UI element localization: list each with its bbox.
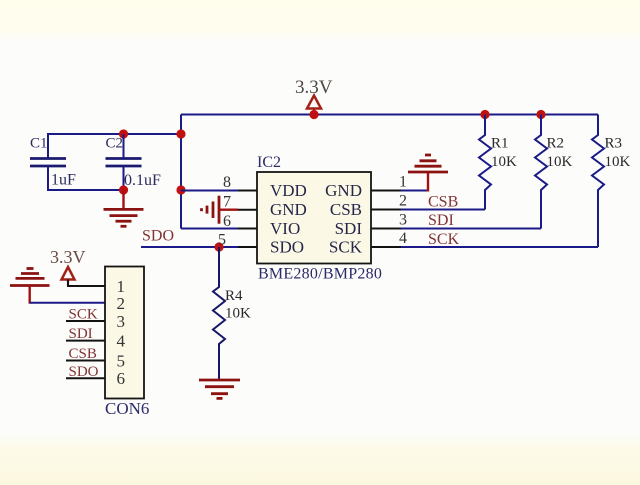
svg-text:SDI: SDI [428, 212, 454, 229]
node vertical/captop junction [176, 129, 185, 138]
ground at CON6 [10, 269, 50, 286]
ground below C2 [104, 209, 144, 226]
resistor R1 [479, 115, 517, 210]
wire CON6 pin4 SDI [66, 340, 105, 342]
wire CON6 pin3 SCK [66, 320, 105, 322]
ground at pin1 [408, 155, 448, 172]
svg-text:7: 7 [223, 194, 231, 211]
wire pin1 ground stem [427, 172, 429, 192]
svg-text:SDI: SDI [335, 219, 363, 238]
svg-text:10K: 10K [547, 154, 573, 170]
ground at pin7 (rotated) [202, 196, 239, 224]
wire C1 bottom lead [48, 166, 124, 190]
svg-text:SDI: SDI [69, 326, 93, 342]
op-amp IC2 body [257, 154, 382, 283]
capacitor C2 [106, 136, 162, 190]
svg-text:3.3V: 3.3V [50, 247, 86, 267]
node R1 rail junction [480, 110, 489, 119]
resistor R2 [535, 115, 573, 229]
svg-text:5: 5 [218, 232, 226, 249]
svg-text:CSB: CSB [428, 194, 458, 211]
wire SCK net [401, 246, 598, 248]
svg-text:3: 3 [117, 312, 126, 331]
wire to pin8 VDD [181, 190, 238, 192]
svg-text:IC2: IC2 [257, 154, 281, 171]
wire 3.3V rail [181, 114, 598, 116]
wire CON6 pin5 CSB [66, 360, 105, 362]
node SDO/R4 junction [214, 242, 223, 251]
capacitor C1 [30, 136, 76, 189]
svg-text:CSB: CSB [69, 346, 97, 362]
wire pin1 to ground [401, 190, 428, 192]
resistor R3 [592, 115, 631, 248]
connector CON6 body [105, 267, 149, 419]
wire C2 bottom lead [123, 166, 125, 190]
svg-text:GND: GND [325, 181, 362, 200]
svg-text:6: 6 [223, 213, 231, 230]
svg-text:R4: R4 [225, 288, 243, 304]
svg-text:6: 6 [117, 369, 126, 388]
IC U1 pin stubs right [371, 191, 401, 248]
svg-text:10K: 10K [225, 306, 251, 322]
svg-text:3: 3 [399, 212, 407, 229]
svg-text:1: 1 [399, 174, 407, 191]
svg-text:C1: C1 [30, 136, 48, 152]
svg-text:10K: 10K [491, 154, 517, 170]
power 3.3V at CON6 [50, 247, 86, 286]
svg-text:SCK: SCK [69, 307, 98, 323]
svg-text:SDO: SDO [142, 228, 174, 245]
wire C2 top lead [123, 134, 125, 159]
wire CON6 pin6 SDO [66, 377, 105, 379]
svg-text:SCK: SCK [329, 238, 363, 257]
wire SDO net [141, 246, 238, 248]
svg-text:CON6: CON6 [105, 399, 149, 418]
svg-text:GND: GND [270, 200, 307, 219]
svg-text:SDO: SDO [270, 238, 304, 257]
svg-text:1uF: 1uF [51, 172, 76, 189]
svg-text:2: 2 [117, 294, 126, 313]
svg-text:2: 2 [399, 193, 407, 210]
node C2 bottom junction [119, 185, 128, 194]
wire main vertical from rail [180, 115, 182, 229]
svg-text:C2: C2 [106, 136, 124, 152]
wire CON6 pin2 [30, 302, 105, 304]
power 3.3V top [295, 77, 333, 115]
wire capacitor top bus [48, 134, 181, 159]
wire CSB net [401, 209, 485, 211]
svg-text:4: 4 [399, 230, 407, 247]
svg-text:SCK: SCK [428, 231, 460, 248]
svg-text:CSB: CSB [330, 200, 362, 219]
IC U1 pin stubs left [238, 191, 257, 248]
resistor R4 [213, 247, 251, 380]
svg-text:4: 4 [117, 332, 126, 351]
svg-text:8: 8 [223, 174, 231, 191]
svg-text:VDD: VDD [270, 181, 307, 200]
svg-text:5: 5 [117, 352, 126, 371]
svg-text:R2: R2 [547, 136, 565, 152]
node R2 rail junction [536, 110, 545, 119]
wire SDI net [401, 228, 541, 230]
wire C2 ground stem [122, 190, 124, 209]
ground below R4 [199, 380, 240, 398]
node VDD branch junction [176, 185, 185, 194]
wire CON6 ground stem [29, 286, 31, 304]
node C2 top junction [119, 129, 128, 138]
svg-text:VIO: VIO [270, 219, 300, 238]
svg-text:R3: R3 [605, 136, 623, 152]
node 3.3V rail junction [309, 110, 318, 119]
svg-text:BME280/BMP280: BME280/BMP280 [258, 266, 382, 283]
svg-text:10K: 10K [605, 154, 631, 170]
svg-text:SDO: SDO [69, 364, 99, 380]
wire CON6 pin1 [68, 280, 105, 287]
wire to pin6 VIO [181, 228, 238, 230]
svg-text:0.1uF: 0.1uF [124, 172, 161, 189]
svg-text:R1: R1 [491, 136, 509, 152]
